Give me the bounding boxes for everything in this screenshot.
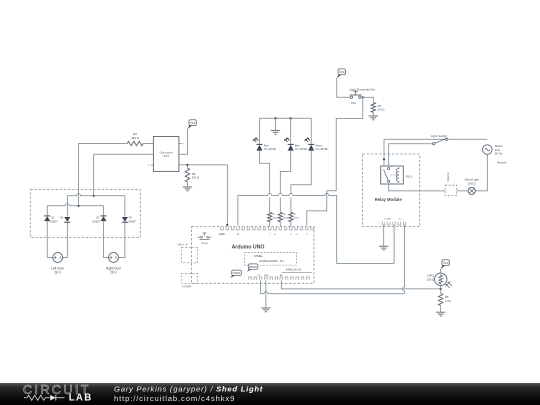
svg-text:100 Ω: 100 Ω — [427, 277, 435, 281]
relay module pin header — [383, 222, 406, 225]
ground (R5) — [436, 312, 445, 316]
svg-text:Arduino UNO: Arduino UNO — [232, 244, 265, 250]
svg-text:Blue: Blue — [295, 145, 301, 148]
svg-text:Light Switch: Light Switch — [431, 134, 448, 138]
relay RLY1 link (dashed) — [391, 174, 397, 176]
terminal dashed box — [445, 185, 457, 195]
wire R8 to ground — [187, 182, 189, 187]
ATMEL chip dashed box — [245, 253, 297, 266]
svg-text:Red: Red — [264, 145, 269, 148]
wire LED cathode bus — [260, 118, 312, 144]
wire pin11 bus to relay module — [238, 194, 394, 264]
wire cathode bus up to opto pin2 — [94, 154, 154, 196]
svg-text:Light Threshold Set: Light Threshold Set — [349, 87, 375, 91]
pushbutton SW1 Light Threshold Set — [350, 91, 362, 98]
svg-text:1N4007: 1N4007 — [128, 221, 137, 223]
photoresistor LDR1 — [435, 273, 453, 288]
wire D4 to left door — [63, 222, 68, 257]
Arduino top pin header row — [221, 227, 314, 230]
ground (R8) — [183, 187, 192, 191]
resistor R8 330 ohm — [185, 168, 189, 182]
voltage source V1 Left Door — [53, 253, 63, 263]
RESET net flag — [247, 264, 258, 272]
diode D4 1N4007 — [64, 217, 70, 222]
ground (LEDs) — [271, 130, 280, 134]
wire to R8 — [187, 165, 189, 168]
wire D2 to right door — [104, 221, 109, 257]
wire D3 column upper — [124, 196, 126, 217]
wire to R1 top — [269, 198, 271, 213]
svg-text:USB A - B: USB A - B — [177, 244, 188, 247]
svg-text:ANALOG IN: ANALOG IN — [286, 268, 301, 272]
svg-text:LAB: LAB — [69, 393, 93, 404]
svg-text:330 Ω: 330 Ω — [294, 218, 300, 220]
svg-text:Gary Perkins (garyper) / Shed: Gary Perkins (garyper) / Shed Light — [114, 384, 263, 393]
Vcc flag (optocoupler) — [188, 120, 197, 129]
Vcc flag (SW1) — [337, 69, 346, 78]
wire R1 to pin — [269, 222, 271, 227]
svg-text:RLY1: RLY1 — [406, 175, 413, 179]
wire to R7 top — [290, 198, 292, 213]
svg-text:R8: R8 — [192, 172, 196, 176]
wire D4 column — [66, 196, 68, 217]
wire opto pin4 to arduino — [179, 164, 227, 166]
wire relay NO contact to terminal — [389, 184, 445, 191]
wire D1 to left door — [47, 221, 53, 257]
svg-text:Terminal: Terminal — [447, 172, 450, 182]
relay RLY1 coil — [396, 167, 398, 183]
wire mains bottom to lamp — [475, 154, 487, 191]
svg-text:Relay Module: Relay Module — [375, 197, 403, 202]
wire 5V pin to relay module Vcc — [261, 280, 405, 294]
wire D1 column upper — [46, 206, 48, 216]
svg-text:28 V: 28 V — [54, 271, 61, 275]
junction SW1 output — [362, 96, 364, 98]
wire to R4 top — [279, 198, 281, 213]
svg-text:330Ω: 330Ω — [283, 218, 288, 220]
wire R5 to ground — [440, 306, 442, 313]
junction LDR / R5 / A0 — [440, 288, 442, 290]
wire to LED ground — [275, 118, 277, 130]
Arduino bottom pin header row — [249, 277, 309, 280]
resistor R1 330 ohm — [268, 212, 272, 221]
svg-text:1N4007: 1N4007 — [92, 221, 101, 223]
wire relay module Vcc pin down (hops A0 wire) — [403, 225, 405, 293]
wire blue LED anode to R4 — [280, 151, 290, 194]
svg-text:1N4007: 1N4007 — [50, 221, 59, 223]
svg-text:100 Ω: 100 Ω — [468, 181, 477, 185]
svg-text:RESET: RESET — [249, 265, 258, 269]
wire green LED anode to R7 — [291, 151, 311, 194]
resistor R5 1 kohm — [439, 294, 443, 306]
junction opto wire / cathode bus — [93, 195, 95, 197]
wire red LED anode to R1 — [260, 151, 270, 194]
wire Vcc to LDR — [440, 269, 442, 274]
svg-text:330Ω: 330Ω — [272, 218, 277, 220]
USB connector box — [181, 247, 197, 262]
IOREF net flag — [230, 270, 241, 278]
svg-text:R9: R9 — [378, 104, 382, 108]
wire SW1 to arduino pin 2 — [307, 97, 363, 225]
wire R6 to opto pin1 — [143, 143, 153, 145]
wire relay pivot up — [383, 139, 385, 166]
svg-text:GND: GND — [264, 275, 269, 277]
svg-text:AREF: AREF — [219, 233, 226, 236]
LED D7 Green LTL-4973E — [305, 138, 315, 151]
svg-text:LTL-4973E: LTL-4973E — [264, 148, 277, 151]
svg-text:Gnd/NR: Gnd/NR — [384, 219, 392, 221]
junction R6 wire / anode bus — [77, 205, 79, 207]
wire relay NO to light switch — [389, 144, 433, 166]
wire anode bus up to R6 — [79, 144, 128, 206]
wire mains live line — [384, 138, 487, 140]
diode D3 1N4007 — [122, 217, 128, 222]
ground (R9) — [369, 116, 378, 120]
svg-text:1 kΩ: 1 kΩ — [445, 299, 451, 303]
svg-text:Green: Green — [315, 145, 323, 148]
relay RLY1 body — [381, 166, 404, 184]
svg-text:IOREF: IOREF — [233, 271, 241, 275]
AC source V3 Mains — [483, 145, 493, 155]
diode D1 1N4007 — [44, 216, 50, 221]
relay RLY1 switch contacts — [384, 168, 390, 183]
svg-text:Vcc: Vcc — [399, 219, 402, 221]
svg-text:Vcc: Vcc — [443, 261, 449, 265]
svg-text:Neutral: Neutral — [497, 160, 506, 164]
pushbutton Reset (arduino) — [198, 233, 212, 240]
svg-text:POWER: POWER — [182, 285, 191, 288]
svg-text:440 Ω: 440 Ω — [131, 136, 140, 140]
wire D3 to right door — [118, 222, 125, 257]
wire A0 pin to LDR divider — [281, 280, 441, 289]
pin 6 stub (unconnected, right top) — [179, 143, 182, 145]
LED D5 Red LTL-4973E — [253, 138, 263, 151]
resistor R4 330 ohm — [278, 212, 282, 221]
svg-text:ATMEL: ATMEL — [254, 254, 264, 258]
wire bus D1-D2 anodes — [47, 204, 103, 206]
wire bus D4-D3 cathodes — [67, 194, 125, 196]
resistor R6 440 ohm — [127, 141, 143, 145]
wire R7 to pin — [290, 222, 292, 227]
resistor R9 10 kohm — [371, 103, 375, 113]
junction relay pin — [383, 158, 385, 160]
logo resistor squiggle — [24, 395, 50, 400]
logo diode — [50, 395, 55, 401]
svg-text:50 Hz: 50 Hz — [495, 152, 503, 156]
wire D2 column upper — [103, 206, 105, 216]
door sensor enclosure dashed box — [30, 190, 140, 238]
ground (relay module) — [379, 246, 388, 250]
svg-text:SW1: SW1 — [351, 101, 357, 105]
svg-text:10 kΩ: 10 kΩ — [378, 108, 385, 112]
junction ground stub — [274, 117, 276, 119]
ground (arduino GND) — [261, 308, 270, 312]
Vcc flag (LDR) — [441, 260, 450, 269]
wire terminal to lamp — [457, 190, 468, 192]
wire opto output down to pin — [226, 165, 228, 226]
resistor R7 330 ohm — [289, 212, 293, 221]
svg-text:28 V: 28 V — [110, 271, 117, 275]
svg-text:Vcc: Vcc — [190, 121, 196, 125]
wire R9 to ground — [372, 112, 374, 116]
svg-text:http://circuitlab.com/c4shkx9: http://circuitlab.com/c4shkx9 — [114, 394, 235, 403]
Arduino UNO dashed outline — [192, 227, 314, 284]
svg-text:4N25: 4N25 — [163, 155, 169, 158]
wire LDR to R5 — [440, 286, 442, 294]
wire relay module gnd pin — [383, 225, 385, 246]
junction blue LED / cathode bus — [290, 117, 292, 119]
svg-text:Reset: Reset — [202, 242, 209, 245]
svg-text:LTL-4973E: LTL-4973E — [295, 148, 308, 151]
Relay Module dashed box — [363, 154, 420, 227]
pin 3 stub (unconnected, left bottom) — [151, 164, 154, 166]
switch SW2 Light Switch — [433, 138, 448, 145]
POWER connector box — [181, 274, 197, 284]
svg-text:330 Ω: 330 Ω — [192, 176, 199, 180]
wire GND pin down — [265, 280, 267, 308]
svg-text:ATMEGA328P - PU: ATMEGA328P - PU — [259, 259, 283, 263]
wire Vcc to SW1 — [337, 78, 350, 98]
op-amp U1 optocoupler 4N25 body — [153, 137, 179, 172]
svg-text:LTL-4973E: LTL-4973E — [315, 148, 328, 151]
voltage source V2 Right Door — [109, 253, 119, 263]
LED D6 Blue LTL-4973E — [284, 138, 294, 151]
junction opto output / R8 — [186, 164, 188, 166]
lamp L1 Shed Light — [468, 187, 475, 194]
svg-text:Vcc: Vcc — [339, 70, 345, 74]
wire Vcc to opto pin5 — [179, 129, 188, 155]
wire blue LED cathode — [290, 118, 292, 144]
wire SW1 to R9 — [361, 97, 373, 102]
wire R4 to pin — [279, 222, 281, 227]
diode D2 1N4007 — [101, 216, 107, 221]
junction at arduino pin — [226, 224, 228, 226]
